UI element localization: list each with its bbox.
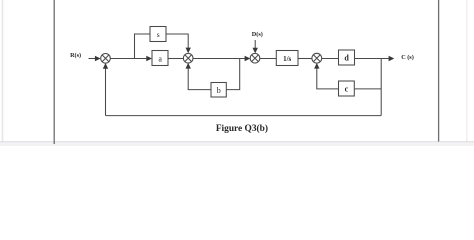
wire: outer feedback bottom run: [106, 115, 382, 117]
wire: D(s) input into S3 (down arrow): [253, 40, 258, 53]
summing junction S2: [183, 53, 193, 63]
wire: S3 to block 1/s: [260, 58, 277, 60]
wire: block b to S2 (up arrow): [186, 63, 212, 90]
block b: [211, 83, 226, 98]
summing junction S3: [250, 53, 260, 63]
svg-text:C (s): C (s): [401, 54, 414, 61]
wire: S1 output to block a (with takeoff node): [110, 56, 152, 61]
wire: block a to S2: [168, 58, 183, 60]
svg-text:Figure Q3(b): Figure Q3(b): [216, 123, 268, 134]
wire: block c to S4 (up arrow): [314, 63, 338, 89]
svg-text:R(s): R(s): [70, 52, 81, 59]
wire: block s to summing junction S2 (down arrow): [166, 34, 191, 53]
svg-text:s: s: [157, 30, 160, 39]
block a: [152, 51, 168, 66]
wire: outer feedback up into S1 (up arrow): [103, 63, 108, 116]
svg-text:c: c: [345, 85, 349, 94]
svg-text:a: a: [158, 54, 162, 63]
wire: block d to output C(s) (with takeoff node): [355, 56, 395, 61]
wire: S2 output to summing junction S3 (with takeoff node): [193, 56, 250, 61]
summing junction S1: [101, 54, 111, 64]
block s: [150, 27, 166, 42]
svg-text:b: b: [217, 86, 221, 95]
svg-text:D(s): D(s): [252, 31, 263, 38]
svg-text:d: d: [344, 54, 349, 63]
wire: output takeoff down to feedback node: [380, 59, 382, 116]
block 1/s: [276, 51, 298, 66]
summing junction S4: [312, 53, 322, 63]
svg-text:1/s: 1/s: [283, 55, 291, 63]
wire: block 1/s to summing junction S4: [298, 58, 312, 60]
block d: [339, 50, 355, 65]
wire: takeoff down to block b: [226, 59, 239, 90]
wire: takeoff up to block s: [135, 34, 151, 59]
wire: feedback node to block c: [354, 88, 381, 90]
wire: R(s) input arrow into summing junction S1: [89, 56, 101, 61]
wire: S4 to block d: [322, 58, 339, 60]
block c: [339, 81, 355, 96]
